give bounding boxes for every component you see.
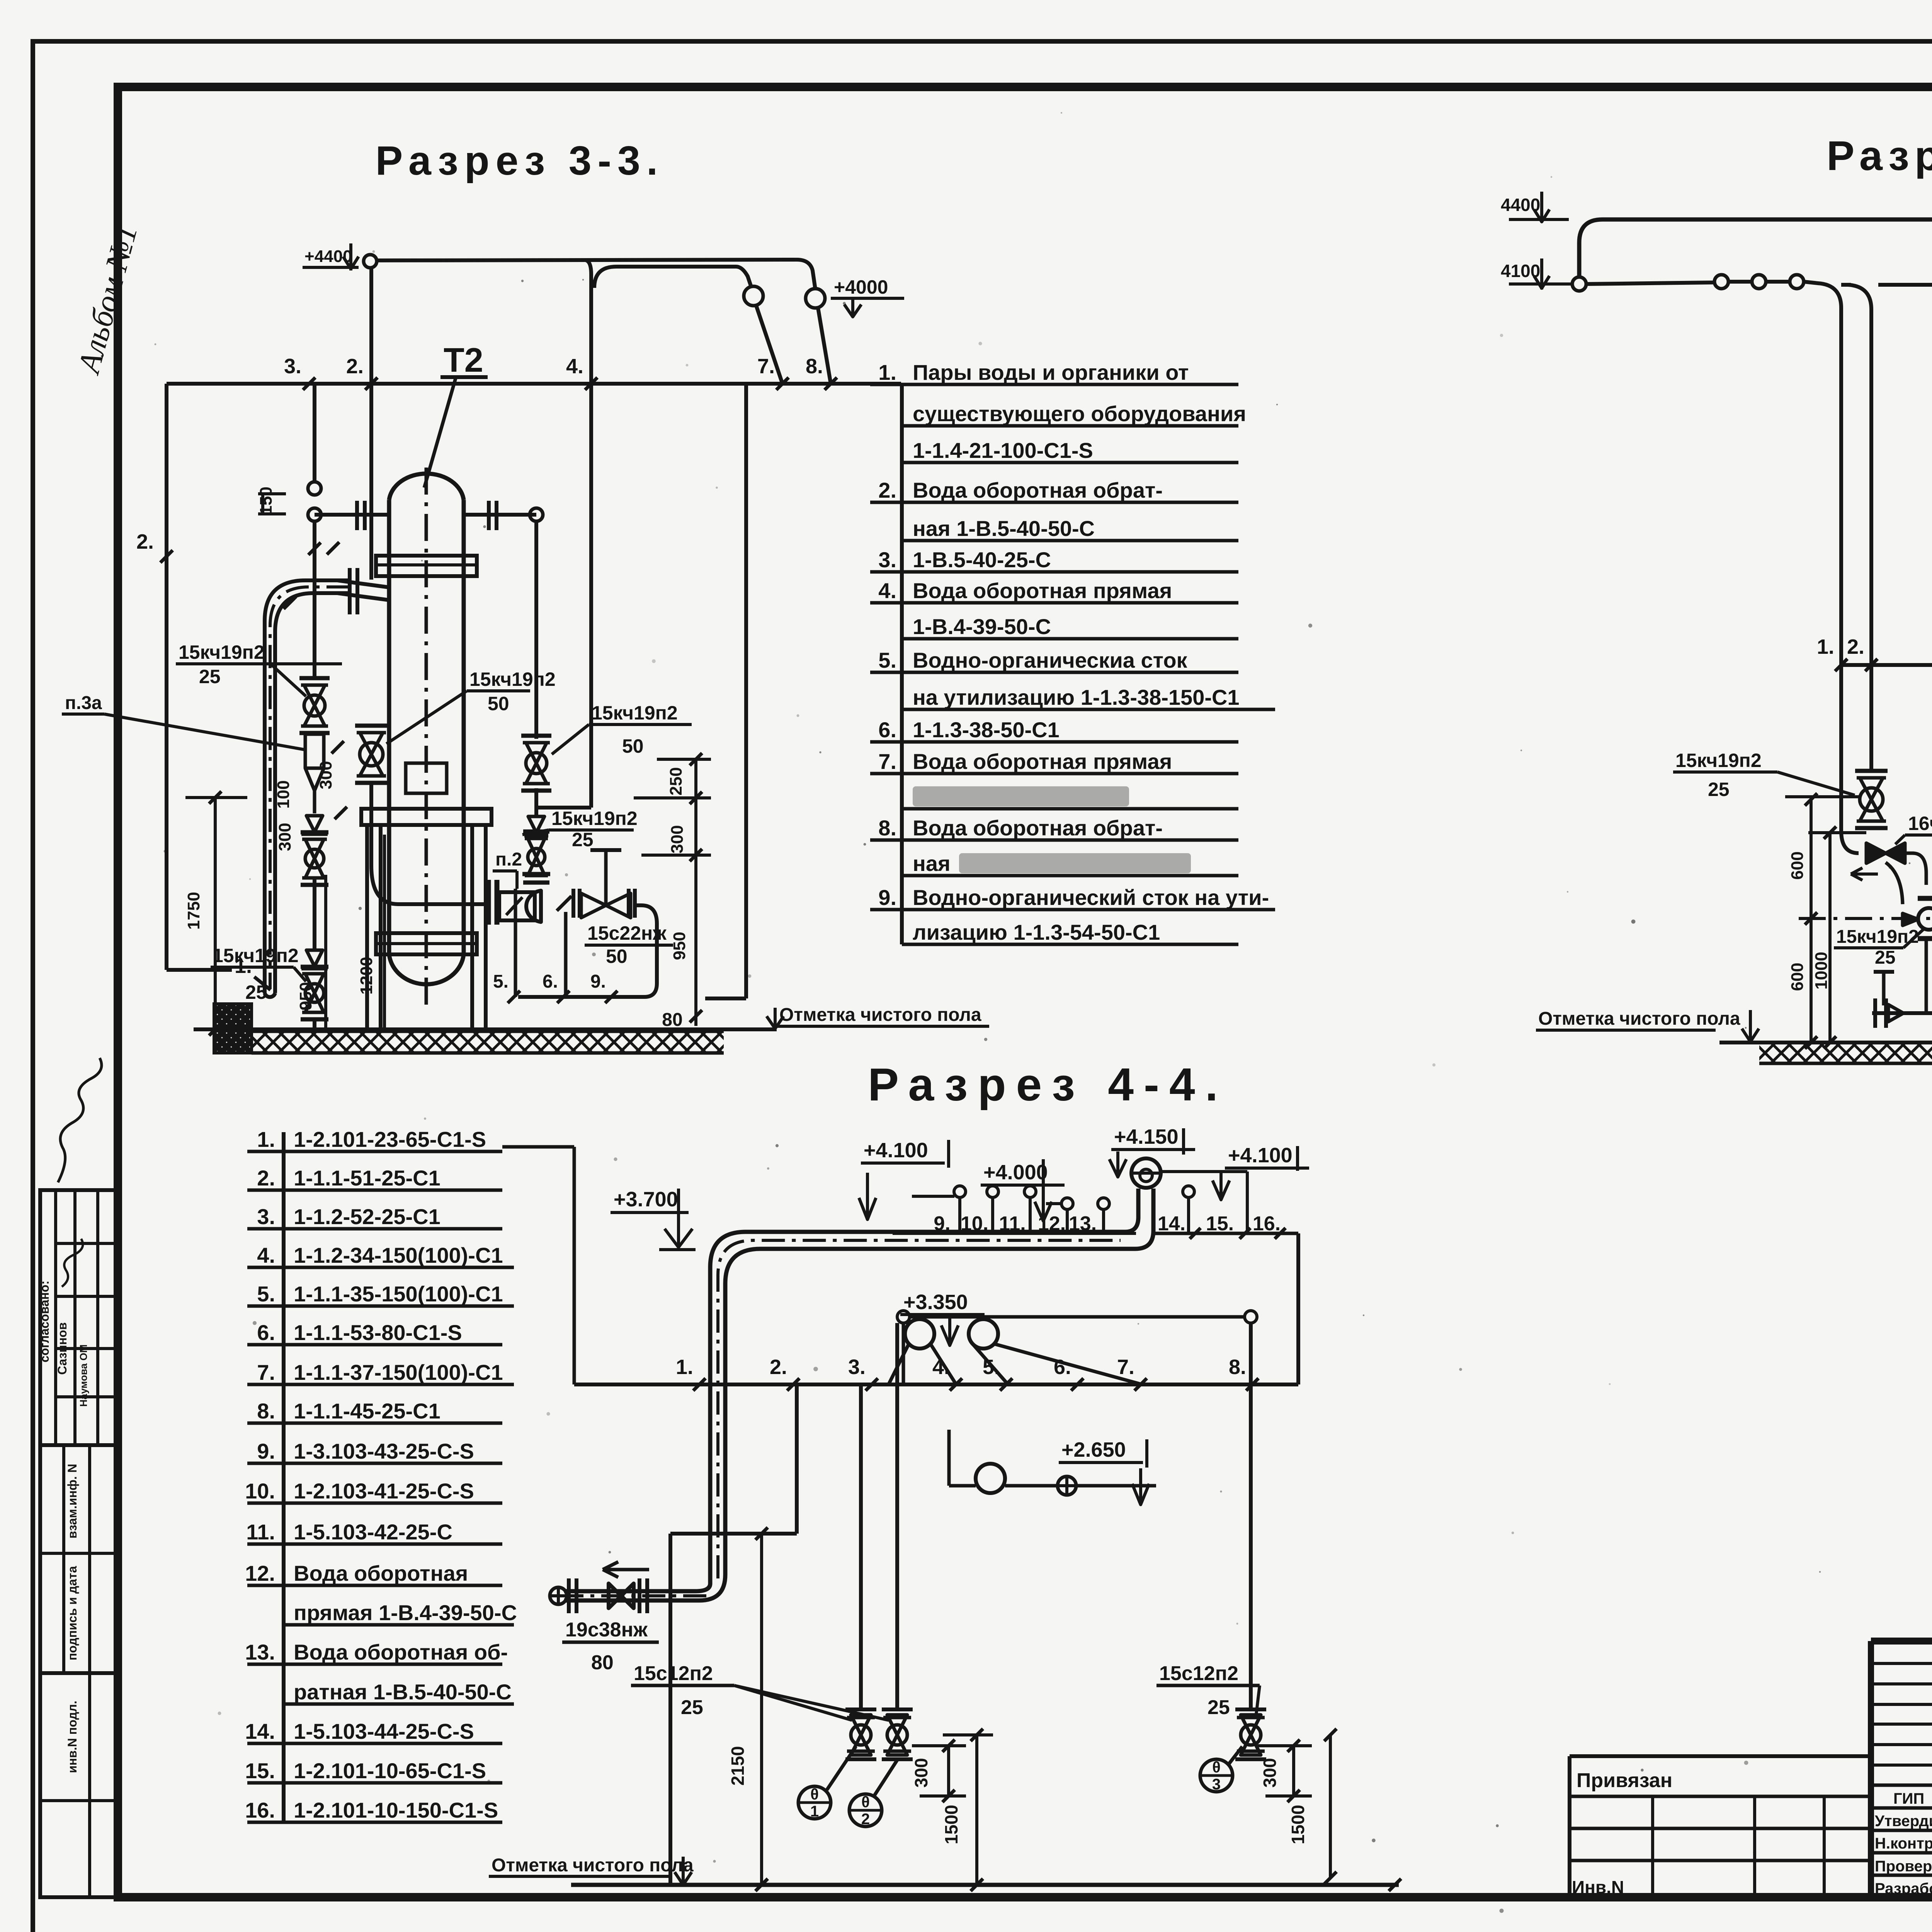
svg-text:+4400: +4400: [304, 247, 352, 266]
svg-text:+4000: +4000: [834, 276, 888, 298]
svg-text:6.: 6.: [1054, 1355, 1071, 1379]
svg-text:15кч19п2: 15кч19п2: [213, 945, 299, 966]
svg-text:θ: θ: [1212, 1759, 1221, 1776]
svg-text:Отметка чистого пола: Отметка чистого пола: [779, 1005, 981, 1025]
svg-text:14.: 14.: [245, 1719, 275, 1743]
svg-text:θ: θ: [861, 1794, 870, 1811]
svg-text:3.: 3.: [284, 355, 301, 378]
svg-text:Привязан: Привязан: [1577, 1769, 1672, 1792]
svg-text:1-3.103-43-25-С-S: 1-3.103-43-25-С-S: [294, 1439, 474, 1463]
svg-text:2.: 2.: [1847, 635, 1864, 658]
svg-text:+4.150: +4.150: [1114, 1125, 1179, 1148]
svg-text:2: 2: [861, 1811, 870, 1828]
svg-text:12.: 12.: [245, 1561, 275, 1585]
svg-text:на утилизацию 1-1.3-38-150-С1: на утилизацию 1-1.3-38-150-С1: [913, 685, 1240, 709]
svg-text:ная 1-В.5-40-50-С: ная 1-В.5-40-50-С: [913, 516, 1095, 541]
svg-text:1.: 1.: [1817, 635, 1834, 658]
svg-text:3: 3: [1212, 1776, 1221, 1793]
svg-text:Отметка чистого пола: Отметка чистого пола: [492, 1855, 694, 1876]
svg-text:Разрез 3-3.: Разрез 3-3.: [376, 138, 664, 184]
svg-text:Наумова ОМ: Наумова ОМ: [78, 1344, 89, 1406]
svg-text:Пары воды и органики от: Пары воды и органики от: [913, 360, 1189, 384]
svg-text:θ: θ: [810, 1786, 819, 1803]
svg-text:2.: 2.: [346, 355, 364, 378]
svg-text:100: 100: [274, 780, 293, 808]
svg-text:4.: 4.: [566, 355, 583, 378]
svg-text:ная: ная: [913, 851, 951, 876]
svg-text:1-1.2-34-150(100)-С1: 1-1.2-34-150(100)-С1: [294, 1243, 503, 1267]
svg-text:11.: 11.: [999, 1213, 1026, 1235]
svg-text:6.: 6.: [257, 1320, 275, 1345]
svg-text:Разработал: Разработал: [1875, 1880, 1932, 1897]
svg-text:прямая 1-В.4-39-50-С: прямая 1-В.4-39-50-С: [294, 1600, 517, 1625]
svg-text:25: 25: [1708, 779, 1730, 800]
svg-text:25: 25: [681, 1696, 703, 1719]
svg-text:9.: 9.: [934, 1213, 950, 1235]
svg-text:лизацию 1-1.3-54-50-С1: лизацию 1-1.3-54-50-С1: [913, 920, 1160, 944]
svg-text:Н.контроль: Н.контроль: [1875, 1835, 1932, 1852]
svg-text:950: 950: [296, 982, 315, 1010]
svg-text:9.: 9.: [257, 1439, 275, 1463]
svg-text:25: 25: [1875, 947, 1895, 968]
svg-text:16.: 16.: [245, 1798, 275, 1822]
svg-text:5.: 5.: [878, 648, 896, 672]
svg-text:2.: 2.: [257, 1166, 275, 1190]
svg-text:80: 80: [591, 1651, 614, 1674]
svg-text:п.2: п.2: [495, 849, 522, 870]
svg-text:6.: 6.: [543, 971, 558, 992]
svg-text:19с38нж: 19с38нж: [565, 1619, 648, 1641]
svg-text:8.: 8.: [257, 1399, 275, 1423]
svg-text:инв.N подл.: инв.N подл.: [65, 1701, 79, 1773]
svg-text:1-1.2-52-25-С1: 1-1.2-52-25-С1: [294, 1204, 440, 1229]
svg-text:1500: 1500: [1288, 1805, 1308, 1844]
svg-text:6.: 6.: [878, 718, 896, 742]
svg-text:Разрез 2-2.: Разрез 2-2.: [1827, 132, 1932, 179]
svg-text:7.: 7.: [257, 1360, 275, 1384]
svg-text:300: 300: [316, 761, 335, 789]
svg-text:+4.100: +4.100: [864, 1139, 928, 1162]
svg-text:+3.700: +3.700: [614, 1188, 678, 1211]
svg-text:80: 80: [662, 1010, 682, 1030]
svg-text:1: 1: [810, 1803, 819, 1820]
svg-text:1-1.4-21-100-С1-S: 1-1.4-21-100-С1-S: [913, 438, 1093, 463]
svg-text:1-1.1-51-25-С1: 1-1.1-51-25-С1: [294, 1166, 440, 1190]
svg-text:1-1.1-35-150(100)-С1: 1-1.1-35-150(100)-С1: [294, 1282, 503, 1306]
svg-text:3.: 3.: [848, 1355, 866, 1379]
svg-text:ГИП: ГИП: [1893, 1790, 1924, 1807]
svg-text:1750: 1750: [184, 892, 203, 930]
svg-text:1-2.101-10-150-С1-S: 1-2.101-10-150-С1-S: [294, 1798, 498, 1822]
svg-text:1-5.103-44-25-С-S: 1-5.103-44-25-С-S: [294, 1719, 474, 1743]
svg-text:2.: 2.: [770, 1355, 787, 1379]
svg-text:13.: 13.: [245, 1640, 275, 1664]
svg-text:16.: 16.: [1253, 1213, 1281, 1235]
svg-text:Вода оборотная об-: Вода оборотная об-: [294, 1640, 508, 1664]
svg-text:4.: 4.: [932, 1355, 950, 1379]
svg-text:+3.350: +3.350: [903, 1291, 968, 1314]
svg-text:8.: 8.: [1229, 1355, 1246, 1379]
svg-text:1-1.1-45-25-С1: 1-1.1-45-25-С1: [294, 1399, 440, 1423]
svg-text:Вода оборотная обрат-: Вода оборотная обрат-: [913, 478, 1163, 502]
svg-text:1-В.4-39-50-С: 1-В.4-39-50-С: [913, 614, 1051, 639]
svg-text:Вода оборотная: Вода оборотная: [294, 1561, 468, 1585]
svg-text:Инв.N: Инв.N: [1572, 1877, 1624, 1897]
svg-text:1.: 1.: [878, 360, 896, 384]
svg-text:50: 50: [622, 735, 644, 757]
svg-text:15кч19п2: 15кч19п2: [1675, 750, 1762, 771]
svg-text:Водно-органическиа сток: Водно-органическиа сток: [913, 648, 1188, 672]
svg-text:12.: 12.: [1038, 1213, 1066, 1235]
svg-text:1-1.3-38-50-С1: 1-1.3-38-50-С1: [913, 718, 1060, 742]
svg-text:10.: 10.: [961, 1213, 988, 1235]
svg-text:1-1.1-53-80-С1-S: 1-1.1-53-80-С1-S: [294, 1320, 462, 1345]
svg-text:5.: 5.: [257, 1282, 275, 1306]
svg-text:300: 300: [276, 823, 294, 851]
svg-text:3.: 3.: [878, 548, 896, 572]
svg-text:50: 50: [488, 693, 509, 714]
svg-text:15.: 15.: [1206, 1213, 1234, 1235]
svg-text:1000: 1000: [1812, 952, 1831, 990]
svg-text:15кч19п2: 15кч19п2: [469, 668, 556, 690]
svg-text:15.: 15.: [245, 1759, 275, 1783]
svg-text:15с22нж: 15с22нж: [587, 922, 667, 944]
svg-text:25: 25: [245, 981, 267, 1003]
svg-text:15с12п2: 15с12п2: [634, 1662, 713, 1685]
svg-text:9.: 9.: [878, 885, 896, 910]
svg-text:Отметка чистого пола: Отметка чистого пола: [1538, 1009, 1740, 1029]
svg-text:300: 300: [668, 825, 687, 853]
svg-text:согласовано:: согласовано:: [37, 1281, 51, 1362]
svg-text:взам.инф. N: взам.инф. N: [65, 1464, 79, 1538]
svg-text:50: 50: [606, 946, 628, 967]
svg-text:+4.000: +4.000: [983, 1161, 1048, 1184]
svg-text:2.: 2.: [136, 530, 154, 553]
svg-text:600: 600: [1788, 963, 1807, 991]
svg-text:2.: 2.: [878, 478, 896, 502]
svg-text:Сазинов: Сазинов: [55, 1322, 69, 1375]
svg-text:8.: 8.: [806, 355, 823, 378]
svg-text:15с12п2: 15с12п2: [1159, 1662, 1238, 1685]
svg-text:1-1.1-37-150(100)-С1: 1-1.1-37-150(100)-С1: [294, 1360, 503, 1384]
svg-text:5.: 5.: [983, 1355, 1000, 1379]
svg-text:+2.650: +2.650: [1061, 1438, 1126, 1461]
svg-text:25: 25: [572, 829, 594, 850]
svg-text:150: 150: [257, 486, 276, 515]
svg-text:Разрез 4-4.: Разрез 4-4.: [868, 1059, 1228, 1111]
svg-text:4.: 4.: [878, 578, 896, 603]
svg-text:1.: 1.: [257, 1127, 275, 1151]
svg-text:1-2.101-10-65-С1-S: 1-2.101-10-65-С1-S: [294, 1759, 486, 1783]
svg-text:Утвердил: Утвердил: [1875, 1813, 1932, 1830]
svg-text:11.: 11.: [246, 1520, 275, 1544]
svg-text:подпись и дата: подпись и дата: [65, 1566, 79, 1660]
svg-text:8.: 8.: [878, 816, 896, 840]
svg-text:1-2.101-23-65-С1-S: 1-2.101-23-65-С1-S: [294, 1127, 486, 1151]
svg-text:300: 300: [1260, 1758, 1280, 1788]
svg-text:1-5.103-42-25-С: 1-5.103-42-25-С: [294, 1520, 452, 1544]
svg-text:13.: 13.: [1069, 1213, 1097, 1235]
svg-text:Вода оборотная прямая: Вода оборотная прямая: [913, 749, 1172, 774]
svg-text:250: 250: [667, 767, 685, 795]
svg-text:ратная 1-В.5-40-50-С: ратная 1-В.5-40-50-С: [294, 1680, 512, 1704]
svg-text:3.: 3.: [257, 1204, 275, 1229]
svg-text:1200: 1200: [357, 957, 376, 995]
svg-text:7.: 7.: [878, 749, 896, 774]
svg-text:15кч19п2: 15кч19п2: [551, 808, 638, 829]
svg-text:15кч19п2: 15кч19п2: [592, 702, 678, 724]
svg-text:10.: 10.: [245, 1479, 275, 1503]
svg-text:Проверил: Проверил: [1875, 1858, 1932, 1875]
svg-text:5.: 5.: [493, 971, 509, 992]
svg-text:9.: 9.: [590, 971, 606, 992]
svg-text:Водно-органический сток на ути: Водно-органический сток на ути-: [913, 885, 1269, 910]
svg-text:п.3а: п.3а: [65, 693, 102, 713]
svg-text:1-2.103-41-25-С-S: 1-2.103-41-25-С-S: [294, 1479, 474, 1503]
svg-text:7.: 7.: [1117, 1355, 1134, 1379]
svg-text:16ч3бр: 16ч3бр: [1908, 813, 1932, 834]
svg-text:300: 300: [911, 1758, 931, 1788]
svg-text:14.: 14.: [1158, 1213, 1185, 1235]
svg-text:25: 25: [199, 666, 221, 687]
svg-text:1-В.5-40-25-С: 1-В.5-40-25-С: [913, 548, 1051, 572]
svg-text:1500: 1500: [941, 1805, 961, 1844]
svg-text:Т2: Т2: [444, 341, 483, 379]
svg-text:Вода оборотная обрат-: Вода оборотная обрат-: [913, 816, 1163, 840]
svg-text:4.: 4.: [257, 1243, 275, 1267]
svg-text:существующего оборудования: существующего оборудования: [913, 401, 1246, 426]
svg-text:600: 600: [1788, 851, 1807, 879]
svg-text:1.: 1.: [676, 1355, 693, 1379]
svg-text:15кч19п2: 15кч19п2: [179, 641, 265, 663]
svg-text:+4.100: +4.100: [1228, 1144, 1293, 1167]
svg-text:2150: 2150: [728, 1746, 748, 1786]
svg-text:Вода оборотная прямая: Вода оборотная прямая: [913, 578, 1172, 603]
svg-text:950: 950: [670, 932, 689, 960]
svg-text:25: 25: [1207, 1696, 1230, 1719]
